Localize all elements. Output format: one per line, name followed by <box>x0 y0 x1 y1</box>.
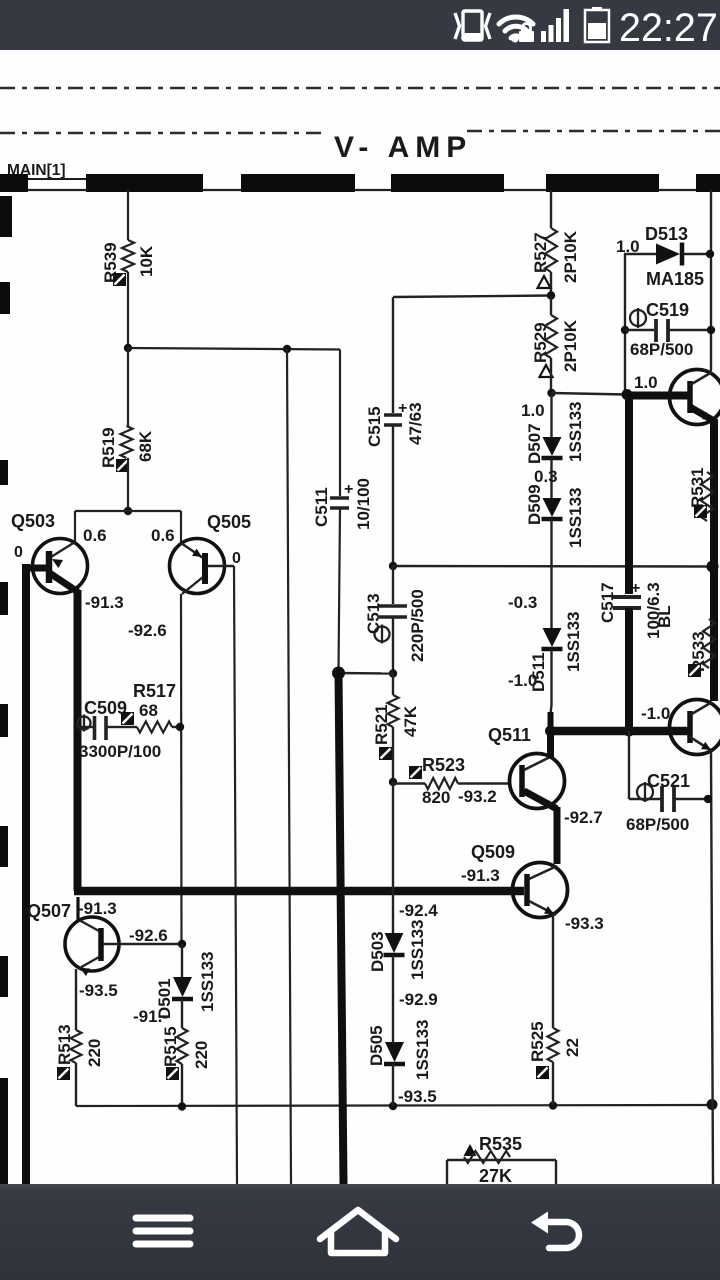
svg-text:R513: R513 <box>55 1024 74 1065</box>
wire: horizontal node row y348 <box>128 348 340 350</box>
bold wire Q511 collector <box>547 731 554 758</box>
wire R539 to node <box>127 272 129 348</box>
wire R519 to Q503/Q505 node <box>127 458 129 511</box>
capacitor C513 <box>392 566 394 604</box>
diode D511 <box>543 628 562 647</box>
resistor R517 <box>121 712 134 725</box>
resistor R527 <box>545 228 557 272</box>
bold rail Q503 emitter <box>74 590 82 891</box>
svg-text:-0.3: -0.3 <box>508 593 537 612</box>
svg-text:0.3: 0.3 <box>534 467 558 486</box>
resistor R521 <box>392 674 394 696</box>
svg-text:3300P/100: 3300P/100 <box>79 742 161 761</box>
svg-text:0.6: 0.6 <box>83 526 107 545</box>
capacitor C511 <box>330 496 349 500</box>
home icon <box>320 1210 396 1253</box>
bold wire Q511 emitter down <box>554 807 561 864</box>
capacitor C519 <box>621 326 629 334</box>
diode D509 <box>543 498 562 517</box>
transistor Q513 top right <box>670 370 720 425</box>
resistor R539 <box>122 240 134 272</box>
svg-text:C521: C521 <box>647 771 690 791</box>
transistor Q2 right <box>670 700 720 755</box>
node bottom x393 <box>389 1102 397 1110</box>
diode D505 <box>385 1042 404 1062</box>
svg-text:1SS133: 1SS133 <box>566 402 585 463</box>
node R527/R529 <box>547 291 555 299</box>
back icon <box>540 1222 579 1248</box>
wire: horizontal to Q505 collector <box>128 510 181 512</box>
wire: bottom bus y1106 <box>76 1105 712 1106</box>
capacitor C521 <box>628 731 630 799</box>
svg-text:R515: R515 <box>161 1026 180 1067</box>
left edge connector blocks <box>0 196 12 237</box>
node x393 y566 <box>389 562 397 570</box>
node R523 <box>389 778 397 786</box>
transistor Q503 <box>22 539 88 594</box>
svg-text:68P/500: 68P/500 <box>626 815 689 834</box>
menu icon <box>136 1218 190 1244</box>
svg-text:R517: R517 <box>133 681 176 701</box>
battery icon <box>585 7 609 42</box>
component box bottom <box>555 1160 557 1184</box>
wire y673 to bold node <box>338 672 393 675</box>
svg-text:0: 0 <box>232 550 241 567</box>
vibrate icon <box>455 11 490 40</box>
status bar <box>0 0 720 50</box>
svg-text:820: 820 <box>422 788 450 807</box>
svg-text:+: + <box>344 481 353 498</box>
bold junction node <box>622 389 633 400</box>
diode D507 <box>550 393 552 437</box>
wire: corner x340 down to C511 <box>339 350 341 497</box>
svg-text:-1.0: -1.0 <box>508 671 537 690</box>
svg-text:C517: C517 <box>598 582 617 623</box>
wire: Q505 base net down x234 <box>234 566 237 1184</box>
svg-text:-91.3: -91.3 <box>78 899 117 918</box>
wire: top feed to R539 <box>127 190 129 240</box>
resistor R531 <box>701 472 713 521</box>
svg-text:-93.5: -93.5 <box>79 981 118 1000</box>
svg-text:R531: R531 <box>688 467 707 508</box>
svg-text:47/63: 47/63 <box>406 402 425 445</box>
wire: top feed x711 <box>710 190 712 371</box>
svg-text:-93.3: -93.3 <box>565 914 604 933</box>
svg-text:-91.-: -91.- <box>133 1007 168 1026</box>
svg-text:C511: C511 <box>312 487 331 527</box>
wire: corner x393 from R527 node <box>392 297 394 413</box>
bold rail x338 down <box>339 673 344 1184</box>
svg-text:-93.5: -93.5 <box>398 1087 437 1106</box>
svg-text:R521: R521 <box>372 704 391 745</box>
connector rail baseline <box>0 189 720 191</box>
node: base feed junction <box>124 507 132 515</box>
svg-text:68K: 68K <box>136 430 155 462</box>
bold horizontal y731 <box>550 727 689 736</box>
svg-text:10K: 10K <box>137 245 156 277</box>
svg-text:D509: D509 <box>525 484 544 525</box>
svg-text:1.0: 1.0 <box>616 237 640 256</box>
wire: horizontal to Q503 collector <box>75 510 128 512</box>
node right end y566 <box>707 561 719 573</box>
svg-text:D507: D507 <box>525 423 544 464</box>
bold horizontal rail to Q509 <box>74 887 524 896</box>
connector block 2 <box>241 174 355 192</box>
dashed border line 2 <box>0 132 328 135</box>
diode D501 <box>181 944 183 977</box>
diode D503 <box>392 782 394 933</box>
node R517 right <box>176 723 184 731</box>
svg-text:22:27: 22:27 <box>619 6 718 50</box>
svg-text:R535: R535 <box>479 1134 522 1154</box>
svg-text:-92.7: -92.7 <box>564 808 603 827</box>
connector block 4 <box>546 174 659 192</box>
node bottom right <box>707 1099 718 1110</box>
svg-text:R525: R525 <box>528 1021 547 1062</box>
svg-text:68: 68 <box>139 701 158 720</box>
svg-text:1.0: 1.0 <box>521 401 545 420</box>
bold vertical x629 <box>625 395 633 595</box>
capacitor C509 <box>73 723 81 731</box>
svg-text:+: + <box>631 580 640 597</box>
svg-text:68P/500: 68P/500 <box>630 340 693 359</box>
bold wire to transistor Q1 <box>626 392 689 400</box>
svg-text:R527: R527 <box>531 232 550 273</box>
svg-text:-1.0: -1.0 <box>641 704 670 723</box>
svg-text:22: 22 <box>563 1038 582 1057</box>
svg-text:C515: C515 <box>365 406 384 447</box>
wire: Q2 emitter down x711 <box>711 752 713 1184</box>
svg-text:R523: R523 <box>422 755 465 775</box>
svg-text:1SS133: 1SS133 <box>566 488 585 549</box>
svg-text:1SS133: 1SS133 <box>198 952 217 1013</box>
svg-text:Q511: Q511 <box>488 725 531 745</box>
bold rail from Q503 base <box>22 564 30 1184</box>
transistor Q509 <box>513 863 568 918</box>
connector block 0 <box>0 174 28 192</box>
svg-text:2P10K: 2P10K <box>561 230 580 283</box>
svg-text:MA185: MA185 <box>646 269 704 289</box>
resistor R533 <box>703 619 715 668</box>
svg-text:R529: R529 <box>531 322 550 363</box>
svg-text:-91.3: -91.3 <box>461 866 500 885</box>
wire: top feed to R527 <box>550 190 552 228</box>
resistor R523 <box>409 766 422 779</box>
svg-text:1SS133: 1SS133 <box>413 1020 432 1081</box>
svg-text:D503: D503 <box>368 931 387 972</box>
node y393 <box>547 389 555 397</box>
svg-text:0: 0 <box>14 544 23 561</box>
svg-text:C519: C519 <box>646 300 689 320</box>
wire: long horizontal y566 <box>393 565 712 568</box>
transistor Q511 <box>510 754 565 810</box>
bold rail x714 <box>710 419 718 701</box>
signal bars <box>541 9 569 42</box>
wire D511 to Q511 node <box>551 705 552 714</box>
resistor R535 <box>464 1144 477 1156</box>
bold node x338 <box>332 667 345 680</box>
svg-text:2P10K: 2P10K <box>561 319 580 372</box>
svg-text:-92.6: -92.6 <box>129 926 168 945</box>
node bottom R525 <box>549 1101 557 1109</box>
svg-text:-91.3: -91.3 <box>85 593 124 612</box>
wire: Q505 collector drop <box>180 511 182 543</box>
svg-text:220: 220 <box>85 1039 104 1067</box>
svg-text:1SS133: 1SS133 <box>564 612 583 673</box>
svg-text:0.6: 0.6 <box>151 526 175 545</box>
svg-text:47K: 47K <box>401 705 420 737</box>
svg-text:R519: R519 <box>99 427 118 468</box>
wire x625 down <box>624 254 626 393</box>
svg-text:D513: D513 <box>645 224 688 244</box>
svg-text:1.0: 1.0 <box>634 373 658 392</box>
wire: horizontal y296 <box>393 296 551 298</box>
svg-text:27K: 27K <box>479 1166 512 1186</box>
node at x287 <box>283 345 291 353</box>
svg-text:Q507: Q507 <box>27 901 71 921</box>
svg-text:220P/500: 220P/500 <box>408 589 427 662</box>
wire: Q503 collector drop <box>74 511 76 542</box>
svg-text:220: 220 <box>192 1041 211 1069</box>
svg-text:-93.2: -93.2 <box>458 787 497 806</box>
svg-text:10/100: 10/100 <box>354 478 373 530</box>
node: R539/R519 junction <box>124 344 132 352</box>
dashed border line top <box>0 87 720 90</box>
wire C511 down to bold node <box>339 508 341 671</box>
svg-text:D505: D505 <box>367 1025 386 1066</box>
capacitor C517 <box>613 595 641 599</box>
connector block 5 <box>696 174 720 192</box>
wire: x287 vertical down <box>287 349 291 1184</box>
svg-text:-92.6: -92.6 <box>128 621 167 640</box>
svg-text:V- AMP: V- AMP <box>334 131 472 164</box>
svg-text:1SS133: 1SS133 <box>408 920 427 981</box>
transistor Q505 <box>170 539 235 595</box>
capacitor C515 <box>384 413 402 417</box>
diode D513 <box>624 253 656 255</box>
node bottom D501 <box>178 1102 186 1110</box>
svg-text:Q505: Q505 <box>207 512 251 532</box>
resistor R525 <box>552 915 554 1028</box>
svg-text:Q509: Q509 <box>471 842 515 862</box>
svg-text:C513: C513 <box>364 593 383 634</box>
resistor R515 <box>177 1028 188 1064</box>
svg-text:BL: BL <box>655 605 674 628</box>
connector block 1 <box>86 174 203 192</box>
wire: Q505 emitter down <box>180 594 183 944</box>
resistor R529 <box>550 296 552 316</box>
svg-text:-92.4: -92.4 <box>399 901 438 920</box>
connector block 3 <box>391 174 504 192</box>
node x393 y673 <box>389 669 397 677</box>
svg-text:Q503: Q503 <box>11 511 55 531</box>
resistor R513 <box>75 969 77 1030</box>
svg-text:C509: C509 <box>84 698 127 718</box>
wifi icon with lock <box>499 17 533 38</box>
node Q507 base / D501 <box>178 940 186 948</box>
wire y394 to bold junction <box>552 393 627 395</box>
transistor Q507 <box>65 917 182 976</box>
svg-text:-92.9: -92.9 <box>399 990 438 1009</box>
resistor R519 <box>127 348 129 426</box>
